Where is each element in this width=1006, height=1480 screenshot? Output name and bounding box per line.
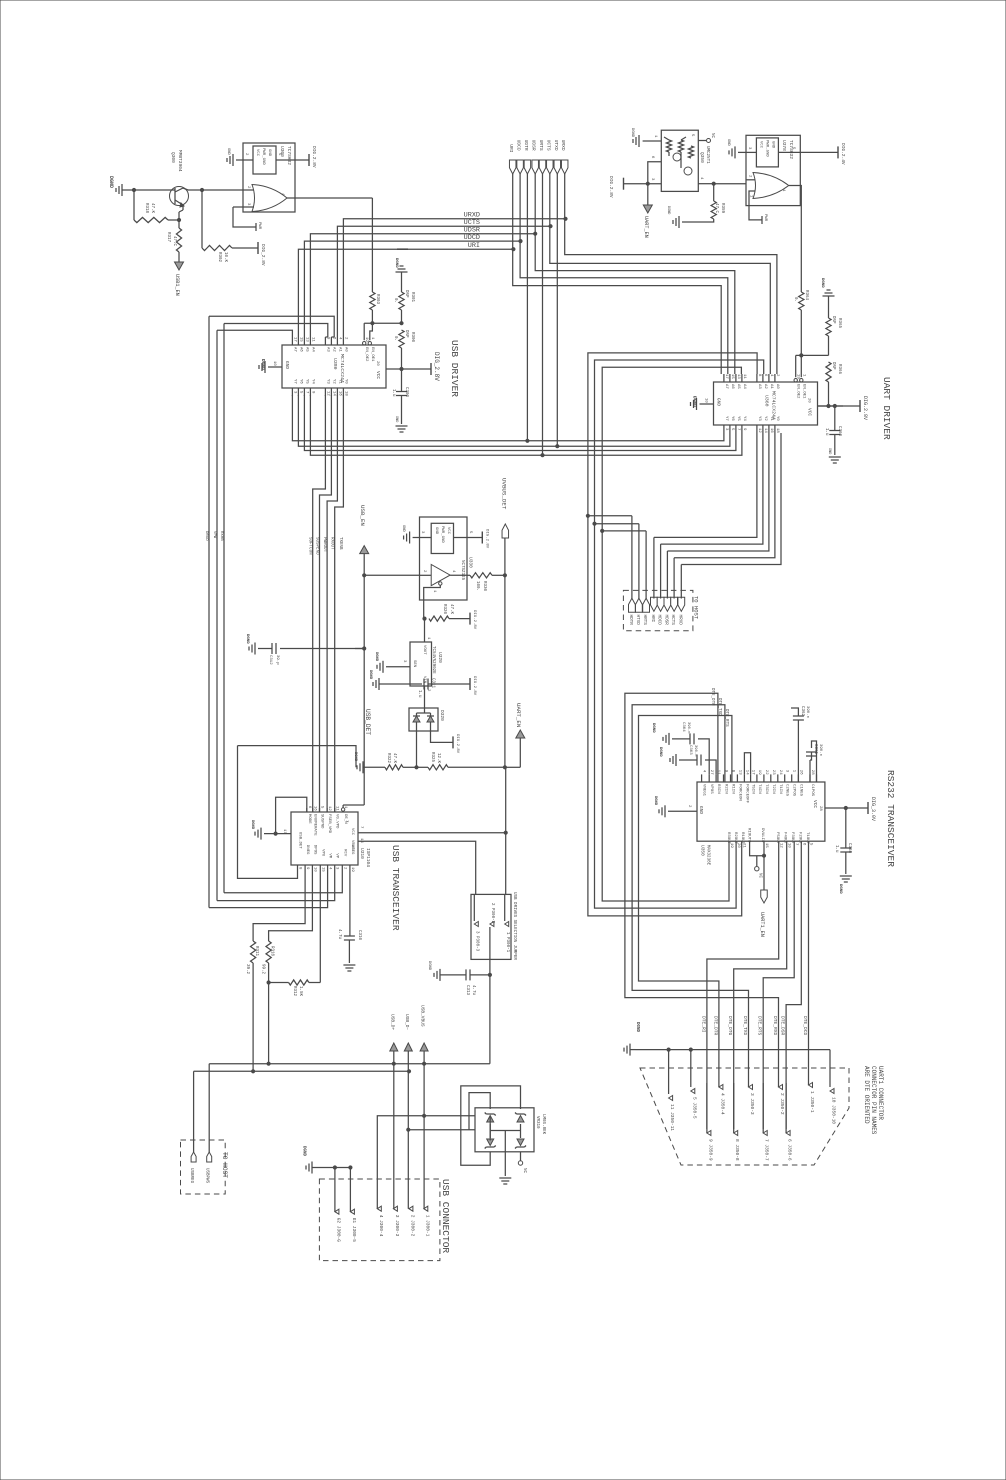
svg-text:URI: URI — [508, 144, 514, 153]
svg-text:DTE_RI: DTE_RI — [700, 1016, 706, 1033]
svg-text:EN_OE1: EN_OE1 — [801, 384, 805, 399]
svg-text:MC74LCX244: MC74LCX244 — [771, 391, 777, 420]
svg-text:DGND: DGND — [245, 634, 249, 644]
svg-text:DGND: DGND — [374, 652, 378, 662]
svg-text:C2NEG: C2NEG — [785, 784, 789, 797]
svg-text:0.: 0. — [393, 336, 397, 341]
svg-text:DTE_RTS: DTE_RTS — [757, 1016, 763, 1036]
svg-text:4.7u: 4.7u — [337, 929, 341, 940]
svg-text:4 J350-4: 4 J350-4 — [719, 1093, 725, 1115]
svg-text:DIG_2.8V: DIG_2.8V — [433, 352, 440, 381]
svg-text:T4IN: T4IN — [757, 784, 761, 794]
svg-text:CONNECTOR PIN NAMES: CONNECTOR PIN NAMES — [870, 1066, 877, 1135]
svg-text:11 J350-11: 11 J350-11 — [669, 1104, 675, 1131]
svg-text:DGND: DGND — [692, 396, 698, 407]
svg-text:C310: C310 — [357, 930, 361, 941]
svg-text:DGND: DGND — [658, 747, 662, 757]
svg-text:20: 20 — [375, 361, 379, 366]
svg-text:28: 28 — [818, 806, 822, 811]
svg-text:T5IN: T5IN — [751, 784, 755, 794]
svg-text:1 P300-1: 1 P300-1 — [505, 932, 509, 953]
svg-text:NC: NC — [710, 133, 714, 139]
svg-text:DIG.2.8V: DIG.2.8V — [608, 176, 614, 198]
svg-text:TO HOST: TO HOST — [693, 596, 700, 620]
svg-text:GND: GND — [267, 149, 271, 157]
svg-text:A7: A7 — [292, 347, 296, 352]
svg-text:U350: U350 — [700, 845, 706, 856]
svg-text:16: 16 — [313, 806, 317, 811]
svg-text:99.2: 99.2 — [261, 964, 265, 975]
svg-text:A6: A6 — [730, 384, 734, 389]
svg-text:U320: U320 — [437, 652, 443, 663]
svg-text:Y5: Y5 — [736, 416, 740, 421]
svg-text:HRI: HRI — [650, 615, 655, 623]
svg-text:VCC: VCC — [807, 408, 813, 416]
svg-text:VCC: VCC — [375, 371, 381, 379]
svg-text:USB1_EN: USB1_EN — [174, 274, 180, 296]
svg-text:R302: R302 — [217, 252, 221, 263]
svg-text:DNP: DNP — [404, 330, 408, 338]
svg-text:V0_VPD: V0_VPD — [335, 814, 339, 829]
svg-text:A3: A3 — [757, 384, 761, 389]
svg-text:U380: U380 — [332, 358, 338, 370]
svg-text:DTE_RTS: DTE_RTS — [724, 709, 728, 727]
svg-text:VPW: VPW — [212, 531, 216, 539]
svg-text:VCC: VCC — [812, 800, 818, 808]
svg-text:1.u: 1.u — [417, 690, 421, 698]
svg-text:EN_OE2: EN_OE2 — [796, 384, 800, 399]
svg-text:UCTS: UCTS — [545, 140, 551, 151]
svg-text:2 J300-2: 2 J300-2 — [409, 1215, 415, 1237]
svg-text:GND: GND — [726, 139, 730, 147]
svg-text:Y4: Y4 — [310, 379, 314, 384]
svg-text:USB CONNECTOR: USB CONNECTOR — [440, 1179, 451, 1253]
svg-text:GND: GND — [698, 806, 704, 814]
svg-text:USBPWS: USBPWS — [205, 1168, 209, 1184]
svg-text:FORCEOFF: FORCEOFF — [744, 784, 748, 804]
svg-text:Y5: Y5 — [304, 379, 308, 384]
svg-text:R301: R301 — [410, 292, 414, 303]
svg-text:PWR_GND: PWR_GND — [765, 140, 769, 157]
svg-text:UMC2NT1: UMC2NT1 — [705, 146, 709, 164]
svg-text:DGND: DGND — [666, 206, 670, 214]
svg-text:10.K: 10.K — [223, 252, 227, 263]
svg-text:GND: GND — [401, 525, 405, 533]
svg-text:47.C: 47.C — [172, 236, 176, 247]
svg-text:DIG_2.8V: DIG_2.8V — [260, 244, 266, 266]
svg-text:U330: U330 — [468, 557, 474, 568]
svg-text:13: 13 — [304, 337, 308, 342]
svg-text:VM: VM — [328, 853, 332, 858]
svg-text:DTE_DCD: DTE_DCD — [802, 1016, 808, 1036]
svg-text:A2: A2 — [331, 347, 335, 352]
svg-text:R311: R311 — [254, 946, 258, 957]
svg-text:R366: R366 — [837, 364, 841, 375]
svg-text:A5: A5 — [304, 347, 308, 352]
svg-text:1.u: 1.u — [391, 389, 395, 397]
svg-text:T2IN: T2IN — [771, 784, 775, 794]
svg-text:ENUMERATE: ENUMERATE — [313, 814, 317, 836]
svg-text:10: 10 — [312, 867, 316, 872]
svg-text:RCV: RCV — [342, 849, 346, 857]
svg-text:VR310: VR310 — [535, 1116, 539, 1129]
svg-text:12.K: 12.K — [436, 753, 440, 764]
svg-text:TO HOST: TO HOST — [221, 1152, 228, 1178]
svg-text:URXD: URXD — [560, 140, 566, 151]
svg-text:T1IN: T1IN — [778, 784, 782, 794]
svg-text:GND: GND — [771, 141, 775, 149]
svg-text:10: 10 — [272, 361, 276, 366]
svg-text:R330: R330 — [482, 581, 486, 592]
svg-text:USB TRANSCEIVER: USB TRANSCEIVER — [390, 845, 401, 931]
svg-text:FSEB_VMD: FSEB_VMD — [327, 814, 331, 834]
svg-text:DIG.2.8V: DIG.2.8V — [485, 529, 489, 549]
svg-text:VBUS: VBUS — [350, 840, 354, 850]
svg-text:PWROUT: PWROUT — [322, 537, 326, 553]
svg-text:11: 11 — [335, 806, 339, 811]
svg-text:GND: GND — [284, 361, 290, 369]
svg-text:NC: NC — [758, 873, 762, 879]
svg-text:TC7SH32: TC7SH32 — [788, 140, 794, 159]
svg-text:RIOUTB: RIOUTB — [747, 828, 751, 843]
svg-text:DIG.2.8V: DIG.2.8V — [472, 676, 476, 696]
svg-text:R359: R359 — [720, 203, 724, 214]
svg-text:1.5K: 1.5K — [298, 986, 302, 997]
svg-text:0.: 0. — [793, 297, 797, 302]
svg-text:DTE_DTG: DTE_DTG — [727, 1016, 733, 1036]
svg-text:15: 15 — [730, 374, 734, 379]
svg-text:A1: A1 — [337, 347, 341, 352]
svg-text:0.: 0. — [393, 298, 397, 303]
svg-text:2 P300-2: 2 P300-2 — [490, 903, 494, 924]
svg-text:MC74LCX244: MC74LCX244 — [339, 354, 345, 383]
svg-text:DRXD: DRXD — [204, 531, 208, 541]
svg-text:47.K: 47.K — [150, 203, 154, 214]
svg-text:11: 11 — [310, 337, 314, 342]
svg-text:HCTS: HCTS — [670, 615, 675, 626]
svg-text:TC7SH32: TC7SH32 — [286, 146, 292, 165]
svg-text:DIG.2.8V: DIG.2.8V — [311, 146, 317, 168]
svg-text:R300: R300 — [410, 332, 414, 343]
svg-text:USB_DET: USB_DET — [298, 832, 302, 849]
svg-text:6 J350-6: 6 J350-6 — [787, 1139, 793, 1161]
svg-text:14: 14 — [763, 428, 767, 433]
svg-text:Y3: Y3 — [757, 416, 761, 421]
svg-text:22: 22 — [764, 770, 768, 775]
svg-text:DTE_TXD: DTE_TXD — [717, 698, 721, 716]
svg-text:15: 15 — [298, 337, 302, 342]
svg-text:URTS: URTS — [538, 140, 544, 151]
svg-text:24: 24 — [778, 770, 782, 775]
svg-text:UART1 CONNECTOR: UART1 CONNECTOR — [877, 1066, 884, 1120]
svg-text:A0: A0 — [775, 384, 779, 389]
svg-text:UTXD: UTXD — [553, 140, 559, 151]
svg-text:U300: U300 — [279, 146, 285, 157]
svg-text:17: 17 — [724, 374, 728, 379]
svg-text:C368: C368 — [847, 843, 851, 854]
svg-text:Y4: Y4 — [742, 416, 746, 421]
svg-text:HDSR: HDSR — [663, 615, 668, 626]
svg-text:DIG.2.8V: DIG.2.8V — [455, 734, 459, 754]
svg-text:HRXD: HRXD — [677, 615, 682, 626]
svg-text:C1NEG: C1NEG — [798, 784, 802, 797]
svg-text:SEN: SEN — [412, 660, 416, 668]
svg-text:VOUT: VOUT — [422, 645, 426, 655]
svg-text:VCC: VCC — [350, 828, 354, 836]
svg-text:TXENB: TXENB — [338, 537, 342, 550]
svg-text:A4: A4 — [310, 347, 314, 352]
svg-text:U378: U378 — [781, 140, 787, 151]
svg-text:TC54VN2902E: TC54VN2902E — [431, 646, 435, 674]
svg-text:DNP: DNP — [404, 290, 408, 298]
svg-text:USB_D-: USB_D- — [404, 1014, 410, 1030]
svg-text:DGND: DGND — [820, 278, 824, 288]
svg-text:DGND: DGND — [630, 128, 634, 138]
svg-text:Y3: Y3 — [325, 379, 329, 384]
svg-text:USBREG: USBREG — [189, 1168, 193, 1184]
svg-text:3 J300-3: 3 J300-3 — [394, 1215, 400, 1237]
svg-text:390.n: 390.n — [686, 722, 690, 733]
svg-text:RXHB: RXHB — [219, 531, 223, 541]
svg-text:MODE: MODE — [307, 814, 311, 824]
svg-text:MAX3238E: MAX3238E — [706, 845, 710, 866]
svg-text:DGND: DGND — [635, 1022, 639, 1033]
svg-text:UART1_EN: UART1_EN — [759, 912, 765, 937]
svg-text:VCC: VCC — [759, 141, 763, 149]
svg-text:UDCD: UDCD — [516, 140, 522, 151]
svg-text:1 J300-1: 1 J300-1 — [424, 1215, 430, 1237]
svg-text:DTE_RXD: DTE_RXD — [772, 1016, 778, 1036]
svg-text:DGND: DGND — [427, 961, 431, 971]
svg-text:GND: GND — [394, 416, 398, 422]
svg-text:390.n: 390.n — [818, 744, 822, 757]
svg-text:A4: A4 — [742, 384, 746, 389]
svg-text:C311: C311 — [431, 678, 435, 689]
svg-text:Y7: Y7 — [292, 379, 296, 384]
svg-text:NC7SZ125: NC7SZ125 — [460, 560, 464, 581]
svg-text:9 J350-9: 9 J350-9 — [707, 1139, 713, 1161]
svg-text:HRTS: HRTS — [642, 615, 647, 626]
svg-text:EN_OE1: EN_OE1 — [370, 347, 374, 362]
svg-text:DGND: DGND — [250, 820, 254, 830]
svg-text:10: 10 — [704, 398, 708, 403]
svg-text:VCC: VCC — [446, 527, 450, 535]
svg-text:EN_OE2: EN_OE2 — [364, 347, 368, 362]
svg-text:C360: C360 — [837, 426, 841, 437]
svg-text:Q300: Q300 — [170, 152, 176, 163]
svg-text:ISP1104: ISP1104 — [365, 848, 371, 867]
svg-text:DNEG: DNEG — [305, 845, 309, 855]
svg-text:ARE DTE ORIENTED: ARE DTE ORIENTED — [863, 1066, 870, 1124]
svg-text:HTXD: HTXD — [635, 615, 640, 626]
svg-text:DGND: DGND — [394, 258, 398, 268]
svg-text:DTE_DTR: DTE_DTR — [712, 1016, 718, 1036]
svg-text:D320: D320 — [439, 710, 445, 721]
svg-text:DIG.2.8V: DIG.2.8V — [472, 610, 476, 630]
svg-text:R310: R310 — [270, 946, 274, 957]
svg-text:3 J350-3: 3 J350-3 — [749, 1093, 755, 1115]
svg-text:8 J350-8: 8 J350-8 — [734, 1139, 740, 1161]
svg-text:DIG_3.0V: DIG_3.0V — [870, 797, 876, 821]
svg-text:13: 13 — [737, 770, 741, 775]
svg-text:R364: R364 — [804, 290, 808, 301]
svg-text:PWR_GND: PWR_GND — [261, 148, 265, 165]
svg-text:T3IN: T3IN — [764, 784, 768, 794]
svg-text:39.2: 39.2 — [245, 964, 249, 975]
svg-text:A7: A7 — [724, 384, 728, 389]
svg-text:GND: GND — [226, 148, 230, 156]
svg-text:12: 12 — [327, 806, 331, 811]
svg-text:DGND: DGND — [260, 359, 266, 370]
svg-text:C2POS: C2POS — [792, 784, 796, 797]
svg-text:19: 19 — [757, 770, 761, 775]
svg-text:DNP: DNP — [831, 362, 835, 370]
svg-text:UDTR: UDTR — [523, 140, 529, 151]
svg-text:R322: R322 — [386, 753, 390, 764]
svg-text:20: 20 — [807, 398, 811, 403]
svg-text:SOFTCON: SOFTCON — [308, 537, 312, 555]
svg-text:FORCEON: FORCEON — [737, 784, 741, 801]
svg-text:R318: R318 — [144, 203, 148, 214]
svg-text:DTE_TXD: DTE_TXD — [742, 1016, 748, 1036]
svg-text:DNP: DNP — [831, 316, 835, 324]
svg-text:UART_EN: UART_EN — [515, 703, 522, 728]
svg-text:PWR: PWR — [763, 214, 767, 222]
svg-text:1.u: 1.u — [834, 845, 838, 853]
svg-text:A0: A0 — [343, 347, 347, 352]
svg-text:Y2: Y2 — [331, 379, 335, 384]
svg-text:390.n: 390.n — [805, 706, 809, 719]
svg-text:UART DRIVER: UART DRIVER — [881, 377, 892, 440]
svg-text:DIG.2.4V: DIG.2.4V — [840, 143, 846, 165]
svg-text:17: 17 — [282, 829, 286, 834]
svg-text:C363: C363 — [688, 745, 692, 755]
svg-text:R1IN: R1IN — [731, 784, 735, 794]
svg-text:DGND: DGND — [302, 1146, 306, 1157]
svg-text:A5: A5 — [736, 384, 740, 389]
svg-text:C313: C313 — [465, 985, 469, 996]
svg-text:C364: C364 — [681, 722, 685, 732]
svg-text:Q350: Q350 — [699, 152, 705, 163]
svg-text:1.u: 1.u — [824, 428, 828, 436]
svg-text:C300: C300 — [404, 387, 408, 398]
svg-text:HDTR: HDTR — [628, 615, 633, 626]
svg-text:U360: U360 — [764, 395, 770, 407]
svg-text:G2 J300-G: G2 J300-G — [335, 1218, 341, 1243]
svg-text:19: 19 — [350, 867, 354, 872]
svg-text:13: 13 — [736, 374, 740, 379]
svg-text:USB DRIVES SELECTION JUMPER: USB DRIVES SELECTION JUMPER — [512, 892, 516, 960]
svg-text:2 J350-2: 2 J350-2 — [779, 1093, 785, 1115]
svg-text:VPOS: VPOS — [709, 784, 713, 794]
svg-text:USB_DET: USB_DET — [364, 709, 371, 735]
svg-text:23: 23 — [771, 770, 775, 775]
svg-text:14: 14 — [359, 838, 363, 843]
svg-text:RXOUT: RXOUT — [330, 537, 334, 550]
svg-text:DGND: DGND — [838, 884, 842, 894]
svg-text:R303: R303 — [375, 294, 379, 305]
svg-text:R3IN: R3IN — [716, 784, 720, 794]
svg-text:MMBT3904: MMBT3904 — [177, 150, 183, 172]
svg-text:47.C: 47.C — [714, 203, 718, 214]
svg-text:5 J350-5: 5 J350-5 — [691, 1097, 697, 1119]
svg-text:10 J350-10: 10 J350-10 — [831, 1097, 837, 1124]
svg-text:DGND: DGND — [651, 723, 655, 733]
svg-text:LM0S.8EK: LM0S.8EK — [541, 1114, 545, 1135]
svg-text:C361: C361 — [813, 744, 817, 755]
svg-text:3 P300-3: 3 P300-3 — [474, 931, 478, 952]
svg-text:USB_VBUS: USB_VBUS — [420, 1005, 426, 1027]
svg-text:390.n: 390.n — [693, 745, 697, 756]
svg-text:7 J350-7: 7 J350-7 — [764, 1139, 770, 1161]
svg-text:RS232 TRANSCEIVER: RS232 TRANSCEIVER — [885, 770, 896, 867]
svg-text:15: 15 — [320, 867, 324, 872]
svg-text:UART_EN: UART_EN — [643, 216, 649, 238]
svg-text:HDCD: HDCD — [657, 615, 662, 626]
svg-text:47.K: 47.K — [392, 753, 396, 764]
svg-text:UDSR: UDSR — [531, 140, 537, 151]
svg-text:R320: R320 — [442, 604, 446, 615]
svg-text:100.: 100. — [475, 581, 479, 591]
svg-text:G1 J300-5: G1 J300-5 — [351, 1218, 357, 1243]
svg-text:DIG.2.8V: DIG.2.8V — [862, 396, 868, 420]
svg-text:4 J300-4: 4 J300-4 — [378, 1215, 384, 1237]
svg-text:4.7u: 4.7u — [471, 985, 475, 996]
svg-text:USB DRIVER: USB DRIVER — [449, 340, 460, 397]
svg-text:DTE_DSR: DTE_DSR — [780, 1016, 786, 1036]
svg-text:A1: A1 — [769, 384, 773, 389]
svg-text:DVALID: DVALID — [760, 828, 764, 843]
svg-text:VP: VP — [335, 853, 339, 858]
svg-text:12: 12 — [757, 428, 761, 433]
svg-text:VPU: VPU — [320, 849, 324, 857]
svg-text:A3: A3 — [325, 347, 329, 352]
svg-text:39.p: 39.p — [275, 655, 279, 665]
svg-text:A6: A6 — [298, 347, 302, 352]
svg-text:URI: URI — [468, 242, 480, 250]
svg-text:47.K: 47.K — [449, 604, 453, 615]
svg-text:Y6: Y6 — [298, 379, 302, 384]
svg-text:Y6: Y6 — [730, 416, 734, 421]
svg-text:R325: R325 — [430, 752, 434, 763]
svg-text:R365: R365 — [837, 318, 841, 329]
svg-text:16: 16 — [769, 428, 773, 433]
svg-text:NC: NC — [522, 1168, 526, 1174]
svg-text:C1POS: C1POS — [810, 784, 814, 797]
svg-text:SUSPND: SUSPND — [320, 814, 324, 829]
svg-text:A2: A2 — [763, 384, 767, 389]
svg-text:PWR: PWR — [257, 222, 261, 230]
svg-text:R312: R312 — [292, 986, 296, 997]
svg-text:PWR_GND: PWR_GND — [440, 526, 444, 543]
svg-text:SUSPEND: SUSPEND — [314, 537, 318, 555]
svg-text:U310: U310 — [359, 848, 365, 859]
svg-text:C312: C312 — [268, 655, 272, 665]
svg-text:18: 18 — [775, 428, 779, 433]
svg-text:R2IN: R2IN — [724, 784, 728, 794]
svg-text:GND: GND — [434, 527, 438, 535]
svg-text:DGND: DGND — [368, 670, 372, 680]
svg-text:DPOS: DPOS — [312, 845, 316, 855]
svg-text:GND: GND — [716, 398, 722, 406]
svg-text:DGND: DGND — [653, 796, 657, 806]
svg-text:C362: C362 — [800, 706, 804, 717]
svg-text:UVBUS_DET: UVBUS_DET — [501, 478, 508, 510]
svg-text:R317: R317 — [166, 232, 170, 243]
svg-text:VNEG1: VNEG1 — [702, 784, 706, 797]
svg-text:Y7: Y7 — [724, 416, 728, 421]
svg-text:Y2: Y2 — [763, 416, 767, 421]
